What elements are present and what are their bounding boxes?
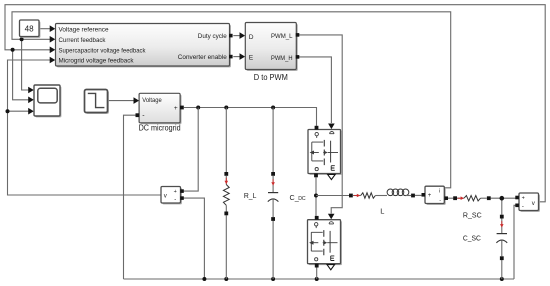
svg-text:i: i: [439, 189, 440, 195]
svg-text:Voltage reference: Voltage reference: [59, 26, 110, 33]
svg-text:+: +: [522, 196, 525, 202]
wire constant 48 to controller input 1: [39, 25, 55, 32]
wire Converter enable to E: [233, 53, 245, 60]
wire current feedback (i output to controller input 2 and scope input 1): [12, 12, 451, 188]
wire C_SC bottom to bus: [501, 260, 503, 279]
svg-text:R_SC: R_SC: [463, 211, 482, 220]
node mosfet midpoint: [314, 194, 318, 198]
step block: [85, 90, 109, 114]
mosfet lower (IGBT/Diode switch): [308, 216, 342, 270]
wire rail drop to R_L: [225, 108, 227, 173]
resistor R_L: [223, 172, 256, 215]
wire lower mosfet source to bus: [316, 267, 318, 279]
scope block: [34, 85, 61, 117]
wire positive DC rail from voltage source to upper mosfet drain: [184, 108, 317, 126]
svg-text:L: L: [380, 207, 384, 216]
resistor R_SC: [453, 196, 490, 220]
svg-text:DC microgrid: DC microgrid: [139, 124, 181, 133]
subsystem D to PWM: [245, 23, 299, 83]
svg-text:-: -: [522, 204, 524, 210]
node rail to C_DC tap: [271, 106, 275, 110]
mosfet upper (IGBT/Diode switch): [308, 126, 342, 180]
svg-text:Current feedback: Current feedback: [59, 37, 107, 44]
series RL branch L: [349, 189, 415, 216]
svg-text:D: D: [249, 34, 254, 41]
node junction microgrid feedback split: [6, 109, 10, 113]
svg-text:Duty cycle: Duty cycle: [198, 33, 228, 40]
wire ground bus (bottom return): [124, 278, 515, 280]
svg-text:D to PWM: D to PWM: [254, 73, 288, 82]
wire R_SC to v+ and C_SC: [491, 198, 517, 215]
node junction supercap feedback split: [11, 48, 15, 52]
controlled voltage source DC microgrid: [136, 93, 184, 132]
wire right v- to ground bus: [514, 205, 517, 279]
svg-text:+: +: [174, 189, 177, 195]
svg-text:+: +: [428, 193, 432, 199]
capacitor C_DC: [268, 172, 306, 221]
wire PWM_H to upper mosfet gate: [296, 57, 334, 129]
wire current measurement to R_SC: [446, 197, 453, 199]
svg-text:Supercapacitor voltage feedbac: Supercapacitor voltage feedback: [59, 47, 147, 54]
wire mosfet midpoint link: [315, 177, 317, 216]
svg-text:48: 48: [25, 25, 35, 34]
wire C_DC bottom to bus: [272, 221, 274, 279]
constant block 48: [20, 20, 41, 38]
svg-text:-: -: [439, 197, 441, 203]
wire step to DC microgrid input: [108, 97, 140, 104]
node bus C_DC: [271, 277, 275, 281]
wire RL branch to current measurement: [415, 194, 422, 196]
wire midpoint to series RL branch: [316, 195, 349, 197]
subsystem controller block: [56, 24, 233, 68]
node bus lower mosfet source: [315, 277, 319, 281]
svg-text:PWM_H: PWM_H: [271, 55, 293, 62]
svg-text:C_SC: C_SC: [463, 234, 481, 243]
wire Duty cycle to D: [233, 32, 245, 39]
node rail to R_L tap: [224, 106, 228, 110]
wire supercapacitor voltage feedback (v_SC output to controller input 3 and scope input 2): [5, 5, 545, 202]
svg-text:-: -: [174, 197, 176, 203]
wire DC microgrid negative terminal to ground bus: [124, 115, 136, 279]
node junction current feedback split: [20, 37, 24, 41]
node R_SC / C_SC / v+ junction: [500, 196, 505, 201]
wire rail drop to C_DC: [272, 108, 274, 173]
node rail to v+ tap: [196, 106, 200, 110]
svg-text:+: +: [174, 105, 178, 112]
svg-text:R_L: R_L: [244, 191, 257, 200]
wire v- sense to ground bus: [183, 198, 205, 279]
wire microgrid voltage feedback (v output to controller input 4 and scope input 3): [8, 57, 162, 195]
svg-text:PWM_L: PWM_L: [271, 33, 293, 40]
node bus C_SC: [500, 277, 504, 281]
capacitor C_SC: [463, 215, 507, 260]
node bus R_L: [224, 277, 228, 281]
svg-text:Microgrid voltage feedback: Microgrid voltage feedback: [59, 58, 135, 65]
node bus v-: [202, 277, 206, 281]
svg-text:Voltage: Voltage: [142, 98, 162, 104]
svg-text:DC: DC: [298, 196, 306, 202]
wire R_L bottom to bus: [225, 215, 227, 279]
wire PWM_L to lower mosfet gate: [296, 35, 342, 219]
svg-text:E: E: [249, 55, 254, 62]
voltage measurement v (supercapacitor): [515, 193, 540, 212]
svg-text:Converter enable: Converter enable: [178, 54, 228, 61]
current measurement i: [422, 186, 449, 205]
voltage measurement v (DC microgrid): [161, 187, 184, 205]
wire v+ sense drop: [183, 108, 199, 192]
